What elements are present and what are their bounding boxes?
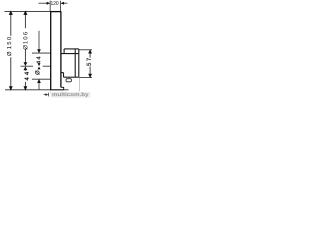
node handle-side-view xyxy=(61,49,78,77)
node dim-57 xyxy=(88,49,92,78)
node plate-side-view xyxy=(50,11,64,89)
node label-44-left xyxy=(25,72,29,80)
node label-dia150 xyxy=(7,37,11,56)
wire faint stub below plate corner xyxy=(50,90,52,94)
node ext-line-A xyxy=(32,52,50,54)
node ext-120-left xyxy=(49,1,51,11)
node ext-57-bottom xyxy=(79,76,92,78)
node ext-120-right xyxy=(60,1,62,11)
node bottom-extension-line xyxy=(5,89,69,91)
node ext-57-top xyxy=(79,49,92,51)
node ext-grip-right-down xyxy=(78,77,80,91)
node top-extension-line xyxy=(5,11,51,13)
node dim-150 xyxy=(9,10,13,90)
node dim-106 xyxy=(23,10,27,70)
wire xyxy=(5,1,93,94)
node ext-line-B xyxy=(43,65,51,67)
node label-44-mid xyxy=(36,57,40,64)
node label-dia106 xyxy=(23,32,27,49)
node watermark-bg xyxy=(51,92,91,98)
node watermark-text xyxy=(52,92,88,97)
node ext-line-C xyxy=(32,78,50,80)
node label-dia-mid xyxy=(35,71,39,75)
node watermark-arrow xyxy=(44,93,49,97)
node dim-chain-39 xyxy=(37,31,41,90)
node ext-line-left106 xyxy=(21,65,34,67)
node dim-120 xyxy=(39,2,68,5)
node handle-button xyxy=(66,79,71,82)
node label-120 xyxy=(51,1,59,5)
node dim-44-left xyxy=(24,70,28,91)
node label-57 xyxy=(87,58,91,66)
